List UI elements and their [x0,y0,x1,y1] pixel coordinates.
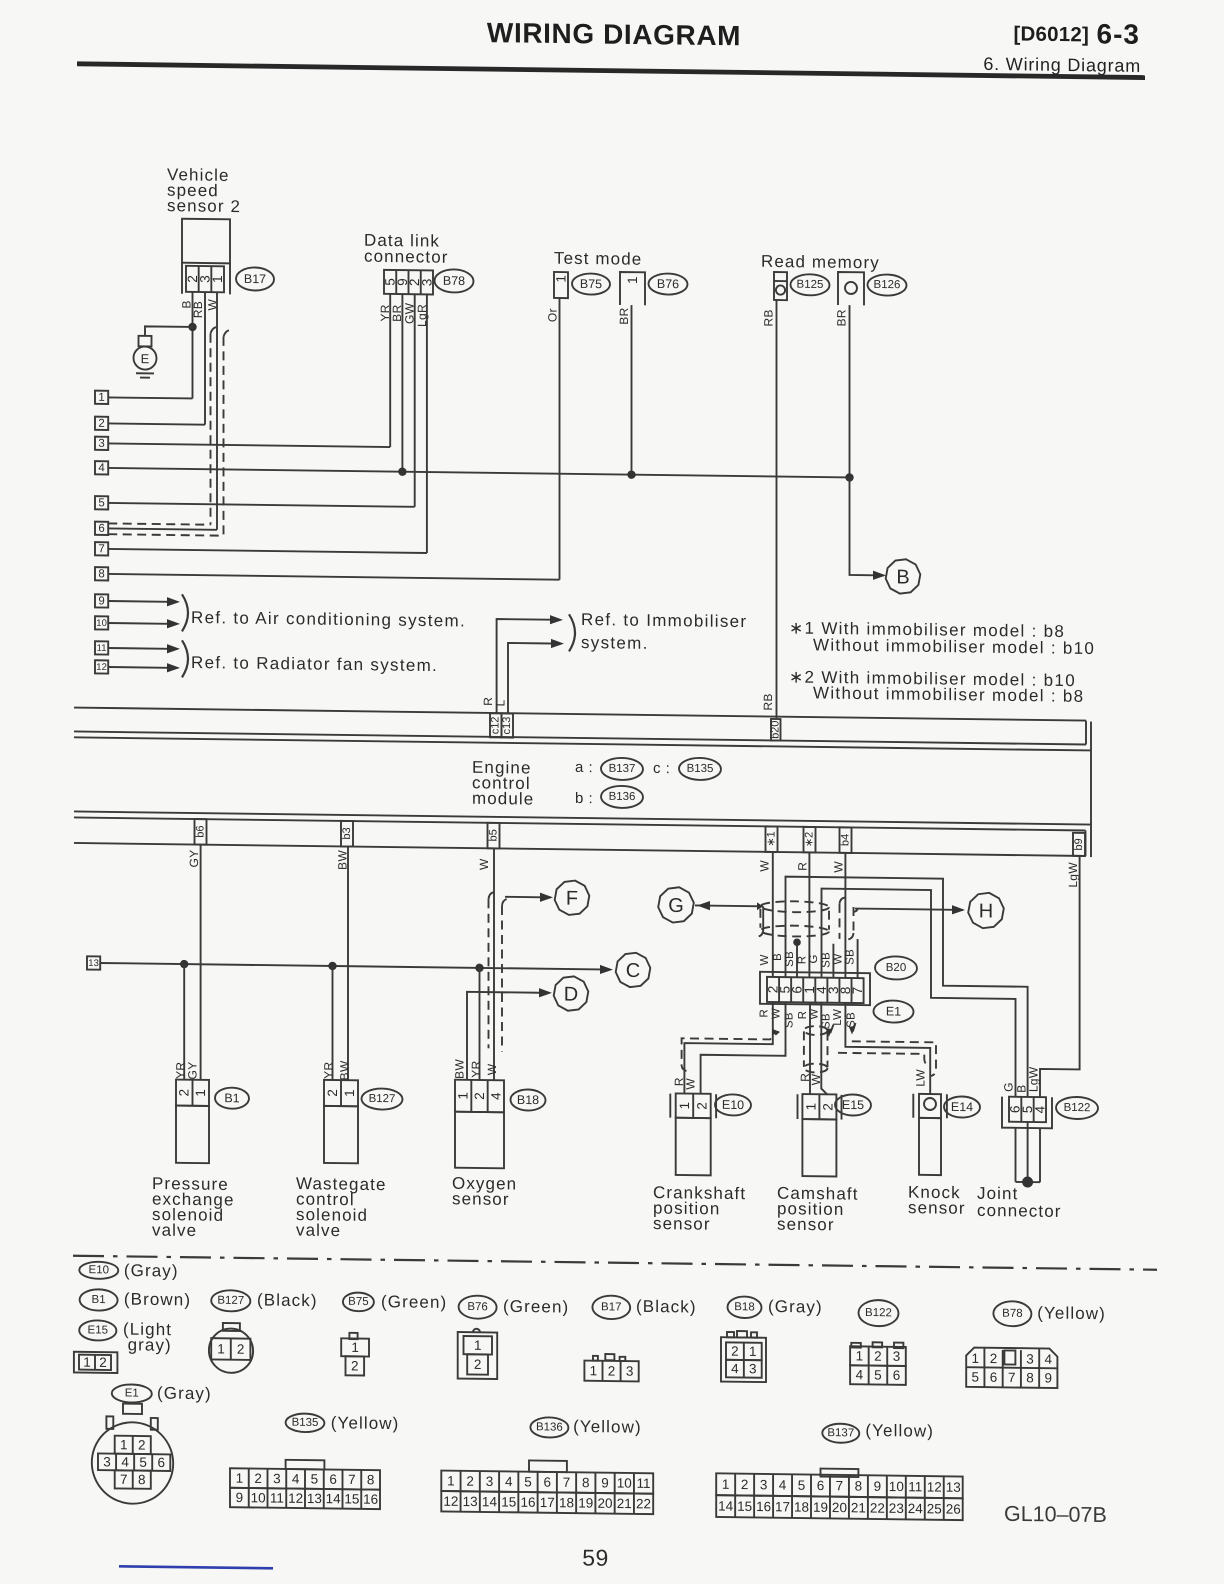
svg-text:1: 1 [120,1437,128,1452]
wire W b4 to B20 pin8 [844,853,846,978]
svg-text:9: 9 [98,595,104,607]
wire GW to node 5 [414,294,416,507]
svg-text:1: 1 [83,1355,91,1370]
svg-text:6: 6 [990,1370,998,1385]
svg-text:8: 8 [98,568,104,580]
svg-text:2: 2 [472,1092,487,1100]
svg-text:1: 1 [210,275,225,283]
wire YR to node 3 [389,294,391,447]
bracket radiator fan [182,640,188,677]
node 12 terminal [95,660,108,673]
stub b20 [771,719,781,741]
svg-text:2: 2 [741,1477,749,1492]
svg-text:B122: B122 [865,1307,892,1319]
connector B20 outer [760,972,870,1005]
wire RB B125 to ECM b20 [776,300,778,718]
svg-text:9: 9 [236,1490,244,1505]
stub b6 [195,819,207,845]
node 13 terminal [87,956,100,969]
vehicle speed sensor 2 body [182,219,230,264]
oval B20 [875,956,917,980]
wire YR node13 to B127 [332,966,334,1080]
svg-text:2: 2 [694,1102,709,1110]
svg-text:12: 12 [443,1494,458,1509]
svg-text:2: 2 [325,1089,340,1097]
ground E lead [145,326,193,336]
svg-text:C: C [626,960,640,982]
svg-text:20: 20 [832,1500,847,1515]
svg-text:W: W [758,860,772,872]
svg-text:13: 13 [463,1494,478,1509]
wire YR node13 to B1 [183,964,185,1080]
svg-text:2: 2 [820,1103,835,1111]
node G octagon [658,887,694,923]
svg-text:3: 3 [1026,1352,1034,1367]
dash-dot separator [73,1256,1157,1270]
svg-text:17: 17 [540,1495,555,1510]
oval B1 [215,1087,249,1108]
svg-text:4: 4 [121,1455,129,1470]
svg-text:B136: B136 [609,791,636,803]
connector B18 pins 1 2 4 [455,1080,504,1113]
svg-text:(Black): (Black) [257,1290,318,1310]
svg-text:14: 14 [718,1499,734,1514]
svg-text:3: 3 [749,1361,757,1376]
legend B76 connector [458,1332,498,1379]
svg-text:5: 5 [98,497,104,509]
wire 2 [108,423,205,424]
shield box dashed (W b4) [839,904,841,939]
svg-text:sensor: sensor [452,1189,510,1209]
shield dashed E10 [682,1030,779,1072]
svg-text:sensor 2: sensor 2 [167,196,241,216]
svg-text:YR: YR [322,1061,336,1078]
svg-text:B: B [896,566,909,588]
svg-text:B75: B75 [348,1296,368,1308]
stub b5 [488,823,500,849]
stub b4 [840,827,852,853]
svg-text:1: 1 [456,1092,471,1100]
svg-text:16: 16 [363,1492,378,1507]
svg-text:2: 2 [254,1471,262,1486]
svg-text:B126: B126 [874,279,901,291]
svg-text:gray): gray) [128,1335,172,1355]
shield dashed E14 left [838,1053,930,1066]
svg-text:2: 2 [237,1342,245,1357]
svg-text:valve: valve [152,1220,197,1240]
wire 5 [108,503,415,507]
svg-text:11: 11 [637,1476,651,1491]
svg-text:3: 3 [626,1364,634,1379]
connector B17 pins 2 3 1 [186,266,224,292]
oval E10 [715,1094,751,1115]
svg-text:10: 10 [889,1479,904,1494]
oval B76 [649,273,688,295]
shield cylinder dashed E15 [804,1026,828,1035]
stub b3 [341,821,353,847]
node 2 terminal [95,417,108,430]
legend B127 connector [209,1328,253,1373]
svg-text:B137: B137 [827,1427,854,1439]
svg-text:RB: RB [762,309,776,326]
svg-text:14: 14 [326,1491,342,1506]
wire W *1 to B20 pin2 [772,852,774,977]
svg-text:YR: YR [469,1060,483,1077]
wire YR node13 to B18 [479,968,481,1080]
svg-text:1: 1 [236,1471,244,1486]
svg-text:1: 1 [856,1348,864,1363]
svg-text:15: 15 [501,1494,516,1509]
wire LgW b9 to B122 pin4 [1040,855,1080,1097]
wire W B20 to E15 pin2 [821,1003,827,1095]
oxygen sensor body [455,1112,504,1169]
svg-text:W: W [832,953,844,964]
svg-text:B127: B127 [217,1295,244,1307]
legend B76 (Green) [459,1295,497,1318]
svg-text:GY: GY [186,1061,200,1079]
svg-text:2: 2 [98,418,104,430]
svg-text:12: 12 [288,1491,303,1506]
svg-text:1: 1 [351,1340,359,1355]
bracket air conditioning [182,594,188,631]
svg-text:E14: E14 [951,1100,973,1114]
node F octagon [555,880,590,915]
legend B78 connector [966,1347,1057,1388]
svg-text:9: 9 [1045,1370,1053,1385]
junction dot 13/B18 [475,964,483,973]
svg-text:1: 1 [625,276,640,284]
solenoid B1 body [176,1106,209,1164]
wire to immobiliser 2 [508,643,551,714]
svg-text:2: 2 [731,1344,739,1359]
svg-text:2: 2 [351,1358,359,1373]
legend B75 (Green) [343,1292,374,1311]
svg-text:LgW: LgW [1027,1066,1041,1092]
wire 11 arrow [108,647,168,650]
svg-text:Test mode: Test mode [554,249,642,269]
svg-text:W: W [684,1078,698,1090]
svg-text:LW: LW [832,1009,844,1026]
svg-text:11: 11 [270,1490,284,1505]
svg-text:8: 8 [1026,1370,1034,1385]
svg-text:W: W [809,1073,823,1085]
svg-text:6: 6 [329,1472,337,1487]
shield dashes O2 (right) [502,898,509,906]
svg-text:1: 1 [554,275,569,283]
svg-text:13: 13 [946,1480,961,1495]
arrow to C [600,965,613,974]
svg-text:2: 2 [138,1437,146,1452]
connector B125 [774,272,787,300]
svg-text:17: 17 [775,1499,790,1514]
svg-text:7: 7 [1008,1370,1016,1385]
wire LgR to node 7 [426,294,428,553]
svg-text:B: B [772,953,784,961]
svg-text:connector: connector [977,1201,1062,1221]
svg-text:L: L [494,699,508,706]
shield dashes around W (right) [224,330,231,337]
svg-text:b5: b5 [488,829,500,841]
svg-text:W: W [485,1063,499,1075]
joint junction dot [1022,1176,1033,1187]
svg-text:6-3: 6-3 [1097,18,1140,50]
node B octagon [886,559,921,594]
junction dot 13/B127 [328,962,336,971]
legend B127 (Black) [211,1290,250,1312]
svg-text:6: 6 [98,523,104,535]
svg-text:10: 10 [96,618,107,629]
shield dashed E14 right [852,1041,936,1076]
svg-text:9: 9 [874,1479,882,1494]
shield cylinder dashed (pair W B R G) [760,901,829,913]
node H octagon [968,893,1004,929]
wire 4 [108,468,849,478]
junction dot wire4/B76 [627,470,635,479]
connector E14 side walls [912,1094,914,1118]
legend E1 connector [92,1422,173,1504]
svg-text:7: 7 [98,543,104,555]
svg-text:D: D [564,983,578,1005]
svg-text:1: 1 [447,1473,455,1488]
svg-text:E1: E1 [125,1387,139,1399]
svg-text:5: 5 [524,1474,532,1489]
wire R *2 to B20 pin1 [808,852,810,977]
svg-text:B135: B135 [292,1417,319,1429]
node 8 terminal [95,567,108,580]
svg-text:RB: RB [761,693,775,710]
wire SB B20 pin7 [857,939,859,978]
connector B122 pins 6 5 4 [1009,1097,1046,1122]
svg-text:3: 3 [893,1349,901,1364]
svg-text:BR: BR [835,309,849,326]
shield dashes O2 (left) [489,892,496,900]
svg-text:1: 1 [749,1344,757,1359]
svg-text:B76: B76 [657,277,679,291]
svg-text:16: 16 [520,1495,535,1510]
svg-text:21: 21 [851,1500,866,1515]
svg-text:3: 3 [419,279,434,287]
oval E15 [835,1094,871,1115]
svg-text:BW: BW [338,1060,352,1080]
svg-text:10: 10 [617,1476,632,1491]
svg-text:Ref. to Immobiliser: Ref. to Immobiliser [581,610,747,631]
wire R B20 to E15 pin1 [809,1002,811,1094]
oval E14 [944,1096,980,1117]
svg-text:b20: b20 [770,720,782,739]
svg-text:7: 7 [348,1472,356,1487]
svg-text:LW: LW [914,1069,928,1087]
wire 6 dashed pair and solid [108,523,210,524]
wire node4 to B [850,477,885,575]
ECM box top edge [74,737,1091,750]
svg-text:sensor: sensor [908,1198,966,1218]
legend B1 (Brown) [80,1289,118,1311]
svg-text:connector: connector [364,247,449,267]
oval B17 [236,267,274,290]
svg-text:3: 3 [486,1474,494,1489]
joint wires below B122 [1015,1128,1017,1182]
svg-text:1: 1 [217,1341,225,1356]
legend B17 (Black) [592,1295,630,1319]
svg-text:B18: B18 [517,1093,539,1107]
ECM box right edge [1090,722,1092,858]
svg-text:7: 7 [836,1478,844,1493]
crankshaft sensor body [676,1118,711,1176]
svg-text:E: E [141,351,150,366]
wire shield to G [695,904,763,907]
svg-text:module: module [472,789,534,809]
svg-text:Without immobiliser model : b1: Without immobiliser model : b10 [813,635,1095,658]
shield dashes around W (left) [211,327,218,334]
node 11 terminal [95,641,108,654]
svg-text:R: R [796,956,808,965]
svg-text:5: 5 [311,1472,319,1487]
node 9 terminal [95,594,108,607]
svg-text:B125: B125 [797,279,824,291]
svg-text:4: 4 [98,462,105,474]
svg-text:∗2: ∗2 [804,832,816,847]
svg-text:8: 8 [138,1472,146,1487]
svg-text:E1: E1 [886,1004,901,1018]
wire 10 arrow [108,622,168,625]
node 5 terminal [95,496,108,509]
wire BW B18 to D [467,992,549,1081]
legend B18 connector [721,1337,766,1382]
svg-text:GL10–07B: GL10–07B [1004,1502,1107,1527]
svg-text:25: 25 [927,1501,942,1516]
oval B122 [1056,1097,1098,1120]
svg-text:WIRING DIAGRAM: WIRING DIAGRAM [487,17,741,51]
svg-text:59: 59 [582,1545,609,1571]
svg-text:1: 1 [193,1089,208,1097]
svg-text:B78: B78 [443,274,465,288]
svg-text:B78: B78 [1002,1308,1022,1320]
svg-text:F: F [566,888,578,910]
svg-text:Ref. to Radiator fan system.: Ref. to Radiator fan system. [191,653,438,675]
node C octagon [616,953,651,988]
connector E10 pins 1 2 [676,1093,711,1118]
svg-text:B76: B76 [467,1301,487,1313]
wire BR B76 to node 4 [631,305,633,475]
stub &#8727;2 [804,827,816,853]
svg-text:B136: B136 [536,1421,563,1433]
svg-text:B1: B1 [92,1294,106,1306]
connector E10 side walls [669,1094,671,1118]
wire shield to H [854,909,858,913]
connector B76 [620,272,645,305]
legend B122 [859,1300,899,1327]
svg-text:1: 1 [98,392,104,404]
svg-text:[D6012]: [D6012] [1014,22,1089,46]
node 4 terminal [95,461,108,474]
wire 3 [108,443,390,447]
legend B17 connector [593,1356,598,1361]
svg-text:E15: E15 [842,1098,864,1112]
svg-text:Or: Or [546,308,560,322]
svg-text:(Green): (Green) [381,1292,447,1312]
svg-text:LgW: LgW [1066,862,1080,888]
wire BW b3 to B127 [347,846,349,1080]
svg-text:Ref. to Air conditioning syste: Ref. to Air conditioning system. [191,608,466,631]
junction dot B/ground [188,323,196,332]
svg-text:6: 6 [893,1368,901,1383]
svg-text:6. Wiring Diagram: 6. Wiring Diagram [983,54,1141,76]
svg-text:19: 19 [813,1500,828,1515]
svg-text:14: 14 [482,1494,498,1509]
svg-text:5: 5 [972,1370,980,1385]
svg-text:6: 6 [817,1478,825,1493]
connector B78 pins 5 9 2 3 [384,270,433,295]
node 3 terminal [95,437,108,450]
svg-text:sensor: sensor [777,1215,835,1235]
svg-text:23: 23 [889,1501,904,1516]
svg-text:24: 24 [908,1501,924,1516]
legend B75 connector [349,1333,357,1339]
wire 7 [108,549,427,553]
wire R B20 to E10 pin1 [684,1001,772,1095]
svg-text:7: 7 [563,1475,571,1490]
svg-text:19: 19 [578,1495,593,1510]
svg-text:10: 10 [251,1490,266,1505]
svg-text:BR: BR [617,307,631,324]
svg-text:R: R [797,1011,809,1020]
svg-text:b4: b4 [840,834,852,846]
svg-text:2: 2 [177,1089,192,1097]
svg-text:18: 18 [559,1495,574,1510]
svg-text:b3: b3 [341,827,353,839]
svg-text:(Yellow): (Yellow) [331,1413,400,1433]
legend E10 (Gray) [79,1262,118,1280]
shield SB link E15 [830,1025,833,1034]
wire W B20 to E10 pin2 [701,1001,786,1095]
svg-text:4: 4 [488,1092,503,1100]
svg-text:GY: GY [187,849,201,867]
connector B126 [838,272,864,305]
oval B127 [362,1088,403,1110]
svg-text:B17: B17 [601,1301,621,1313]
svg-text:26: 26 [946,1501,961,1516]
svg-text:H: H [979,900,993,922]
oval B75 [572,273,610,294]
svg-text:sensor: sensor [653,1214,711,1234]
svg-text:(Gray): (Gray) [157,1384,212,1404]
svg-text:2: 2 [608,1363,616,1378]
svg-text:6: 6 [543,1475,551,1490]
svg-text:7: 7 [120,1472,128,1487]
node 6 terminal [95,522,108,535]
svg-text:c :: c : [653,760,670,777]
wire 8 [108,574,559,580]
svg-text:13: 13 [307,1491,322,1506]
wire BR B126 to node 4 [849,305,851,477]
wire shield to F [505,896,551,899]
svg-text:a :: a : [575,759,593,776]
svg-text:(Gray): (Gray) [124,1261,179,1281]
svg-text:22: 22 [870,1501,885,1516]
svg-text:B75: B75 [580,277,602,291]
junction dot 13/B1 [180,960,188,969]
svg-text:(Green): (Green) [503,1297,569,1317]
svg-text:SB: SB [784,951,796,967]
connector E15 side walls [797,1094,799,1119]
svg-text:B122: B122 [1064,1102,1091,1114]
header rule [77,64,1145,78]
wire 9 arrow [108,600,168,603]
stub &#8727;1 [766,826,778,852]
svg-text:1: 1 [342,1089,357,1097]
svg-text:SB: SB [845,949,857,965]
ground E symbol [139,336,152,347]
